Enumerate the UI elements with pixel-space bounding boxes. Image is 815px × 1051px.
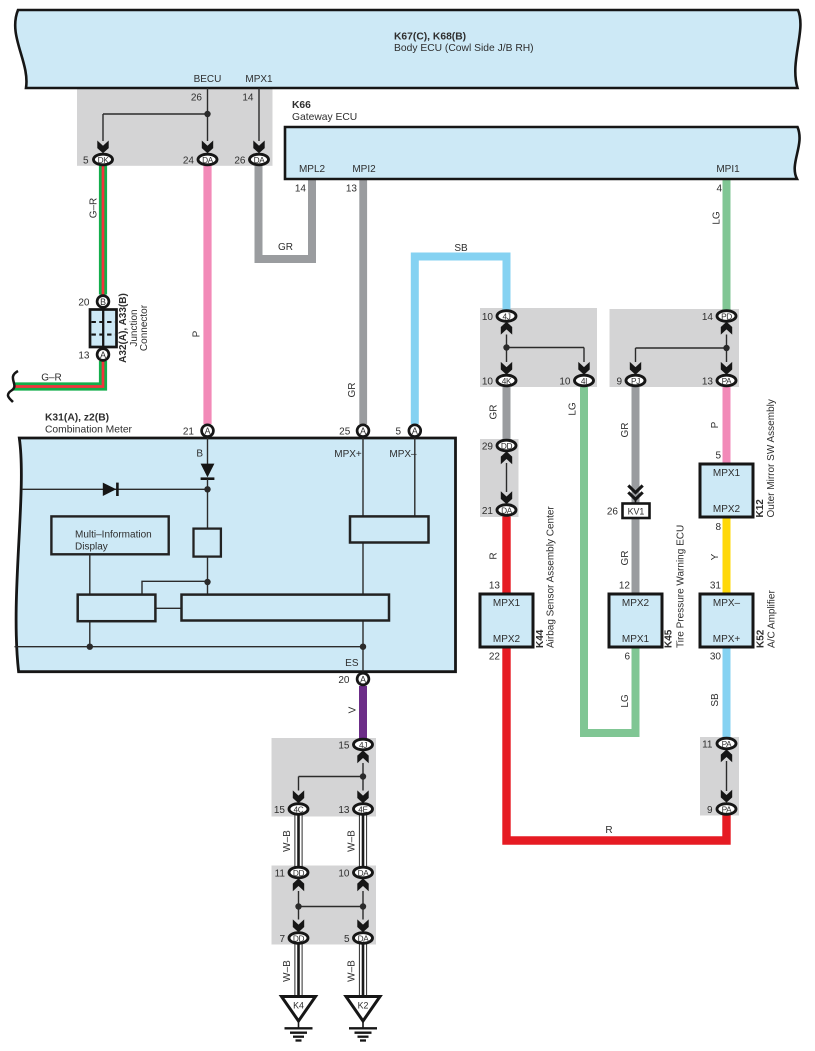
svg-text:13: 13 bbox=[338, 805, 350, 816]
svg-text:BECU: BECU bbox=[194, 74, 222, 85]
svg-text:13: 13 bbox=[489, 581, 501, 592]
svg-text:MPX1: MPX1 bbox=[245, 74, 273, 85]
svg-text:W–B: W–B bbox=[282, 830, 293, 852]
wire R from DA 21 to K44 pin 13 bbox=[489, 517, 511, 595]
svg-text:MPI2: MPI2 bbox=[352, 164, 376, 175]
svg-text:K4: K4 bbox=[293, 1001, 304, 1011]
svg-text:13: 13 bbox=[78, 351, 90, 362]
svg-text:30: 30 bbox=[710, 652, 722, 663]
connector PA 11 bbox=[702, 738, 736, 750]
svg-text:12: 12 bbox=[619, 581, 631, 592]
ground K4 bbox=[282, 997, 316, 1041]
svg-text:MPX2: MPX2 bbox=[493, 634, 521, 645]
svg-text:DD: DD bbox=[293, 868, 305, 878]
wire SB from meter pin 5 to 4J 10 bbox=[415, 243, 507, 424]
svg-text:DA: DA bbox=[501, 505, 513, 515]
block 4J/4K/4I internal wires bbox=[501, 322, 590, 375]
svg-text:K52: K52 bbox=[756, 629, 767, 648]
svg-text:K44: K44 bbox=[535, 629, 546, 648]
block PA/PA internal double arrow bbox=[721, 749, 732, 802]
svg-text:31: 31 bbox=[710, 581, 722, 592]
meter internal: multi-information display box bbox=[51, 516, 168, 554]
connector 4C 15 bbox=[274, 804, 308, 816]
svg-text:MPX2: MPX2 bbox=[622, 598, 650, 609]
svg-text:24: 24 bbox=[183, 156, 195, 167]
wire GR from DA 26 to K66 MPL2 bbox=[259, 165, 313, 259]
svg-text:PD: PD bbox=[721, 311, 732, 321]
wire P from PA 13 to K12 pin 5 bbox=[710, 387, 731, 465]
svg-text:DK: DK bbox=[98, 155, 110, 165]
svg-text:K31(A), z2(B): K31(A), z2(B) bbox=[45, 413, 109, 424]
svg-text:K67(C), K68(B): K67(C), K68(B) bbox=[394, 32, 466, 43]
svg-text:MPX+: MPX+ bbox=[334, 449, 362, 460]
meter internal: MPX box bbox=[350, 516, 429, 542]
svg-text:Outer Mirror SW Assembly: Outer Mirror SW Assembly bbox=[766, 399, 777, 517]
svg-text:DD: DD bbox=[293, 933, 305, 943]
wire GR from PJ 9 to KV1 bbox=[620, 387, 640, 504]
connector PA 9 bbox=[707, 804, 736, 816]
svg-text:26: 26 bbox=[607, 507, 619, 518]
combination meter box K31(A) z2(B) bbox=[16, 413, 455, 672]
connector DA 10 bbox=[338, 867, 372, 879]
svg-text:5: 5 bbox=[83, 156, 89, 167]
svg-text:22: 22 bbox=[489, 652, 501, 663]
connector shield block top-left bbox=[77, 88, 273, 166]
svg-text:26: 26 bbox=[234, 156, 246, 167]
svg-text:MPX1: MPX1 bbox=[493, 598, 521, 609]
svg-text:7: 7 bbox=[279, 934, 285, 945]
svg-text:PJ: PJ bbox=[631, 376, 640, 386]
connector DK 5 bbox=[83, 154, 113, 166]
svg-text:W–B: W–B bbox=[347, 830, 358, 852]
connector shield block 4J/4C/4E bottom bbox=[272, 738, 377, 817]
svg-text:GR: GR bbox=[620, 551, 631, 566]
ground K2 bbox=[346, 997, 380, 1041]
svg-text:MPL2: MPL2 bbox=[299, 164, 326, 175]
svg-text:4J: 4J bbox=[359, 740, 367, 750]
svg-text:R: R bbox=[605, 825, 612, 836]
ECU banner K67/K68 Body ECU bbox=[15, 10, 800, 88]
svg-text:P: P bbox=[710, 421, 721, 428]
svg-text:SB: SB bbox=[710, 693, 721, 707]
svg-text:DA: DA bbox=[358, 868, 370, 878]
svg-text:Body ECU (Cowl Side J/B RH): Body ECU (Cowl Side J/B RH) bbox=[394, 43, 534, 54]
wire V from meter pin 20 to 4J 15 bbox=[348, 686, 368, 739]
svg-text:4: 4 bbox=[716, 184, 722, 195]
wire BECU branch in top block bbox=[97, 88, 264, 153]
svg-text:25: 25 bbox=[339, 427, 351, 438]
block DD/DA mid internal double arrow bbox=[501, 451, 512, 504]
block 4J/4C/4E internal wires bbox=[293, 750, 369, 803]
svg-text:Combination Meter: Combination Meter bbox=[45, 425, 133, 436]
meter pin 5 A bbox=[395, 425, 420, 438]
svg-text:G–R: G–R bbox=[41, 373, 62, 384]
svg-text:K12: K12 bbox=[755, 499, 766, 518]
ECU box K44 Airbag Sensor Assembly Center bbox=[480, 506, 557, 663]
wire LG from 4I to K45 pin 6 bbox=[568, 387, 636, 733]
double chevron into KV1 bbox=[628, 486, 642, 504]
wire G-R from DK to junction connector B bbox=[89, 165, 108, 295]
svg-text:PA: PA bbox=[722, 804, 733, 814]
connector PD 14 bbox=[702, 311, 736, 323]
svg-text:LG: LG bbox=[712, 211, 723, 225]
svg-text:Tire Pressure Warning ECU: Tire Pressure Warning ECU bbox=[676, 525, 687, 648]
svg-text:10: 10 bbox=[482, 377, 494, 388]
svg-text:20: 20 bbox=[338, 675, 350, 686]
svg-text:K66: K66 bbox=[292, 100, 311, 111]
svg-text:W–B: W–B bbox=[347, 960, 358, 982]
svg-text:W–B: W–B bbox=[282, 960, 293, 982]
ECU box K52 A/C Amplifier bbox=[700, 581, 778, 663]
svg-text:SB: SB bbox=[454, 243, 468, 254]
svg-text:Connector: Connector bbox=[139, 304, 150, 351]
svg-text:A/C Amplifier: A/C Amplifier bbox=[767, 590, 778, 648]
svg-text:A32(A), A33(B): A32(A), A33(B) bbox=[118, 293, 129, 363]
connector DD 29 bbox=[482, 440, 516, 452]
meter internal: wires below square bbox=[15, 438, 415, 672]
connector shield block PA/PA bbox=[700, 737, 739, 816]
svg-text:15: 15 bbox=[338, 741, 350, 752]
svg-text:GR: GR bbox=[489, 405, 500, 420]
svg-text:4I: 4I bbox=[581, 376, 587, 386]
connector shield block PD/PJ/PA bbox=[610, 309, 740, 387]
meter pin 25 A bbox=[339, 425, 369, 438]
connector DD 11 bbox=[275, 867, 308, 879]
connector 4E 13 bbox=[338, 804, 372, 816]
connector shield block 4J/4K/4I bbox=[480, 308, 597, 387]
wire W-B from 4C to DD 11 bbox=[282, 815, 302, 867]
wire SB from K52 pin 30 to PA 11 bbox=[710, 647, 731, 738]
svg-text:P: P bbox=[192, 330, 203, 337]
svg-text:11: 11 bbox=[702, 740, 713, 751]
svg-text:MPX–: MPX– bbox=[389, 449, 417, 460]
wire W-B from DD 7 to ground K4 bbox=[282, 944, 302, 997]
connector DD 7 bbox=[279, 933, 308, 945]
svg-text:Multi–Information: Multi–Information bbox=[75, 530, 152, 541]
svg-text:15: 15 bbox=[274, 805, 286, 816]
svg-text:Airbag Sensor Assembly Center: Airbag Sensor Assembly Center bbox=[546, 506, 557, 648]
connector 4I 10 bbox=[559, 375, 593, 387]
connector DA 24 bbox=[183, 154, 217, 166]
connector shield block DD/DA mid bbox=[480, 439, 519, 517]
svg-text:Display: Display bbox=[75, 541, 108, 552]
svg-text:21: 21 bbox=[183, 427, 195, 438]
svg-text:21: 21 bbox=[482, 506, 494, 517]
svg-text:26: 26 bbox=[191, 93, 203, 104]
svg-text:MPX+: MPX+ bbox=[713, 634, 741, 645]
ECU box K12 Outer Mirror SW Assembly bbox=[700, 399, 777, 533]
svg-text:GR: GR bbox=[347, 383, 358, 398]
svg-text:10: 10 bbox=[559, 377, 571, 388]
svg-text:GR: GR bbox=[278, 242, 293, 253]
svg-text:K45: K45 bbox=[664, 629, 675, 648]
svg-text:Y: Y bbox=[710, 553, 721, 560]
connector DA 21 bbox=[482, 505, 516, 517]
svg-text:4J: 4J bbox=[502, 311, 510, 321]
connector 4K 10 bbox=[482, 375, 516, 387]
svg-text:B: B bbox=[100, 297, 106, 307]
junction connector A32(A) A33(B) bbox=[78, 293, 150, 363]
wire W-B from 4E to DA 10 bbox=[347, 815, 367, 867]
svg-text:V: V bbox=[348, 706, 359, 713]
meter pin 20 A (ES) bbox=[338, 673, 369, 686]
svg-text:K2: K2 bbox=[358, 1001, 369, 1011]
block PD/PJ/PA internal wires bbox=[630, 322, 732, 375]
svg-text:A: A bbox=[360, 426, 366, 436]
svg-text:MPI1: MPI1 bbox=[716, 164, 740, 175]
wire W-B from DA 5 to ground K2 bbox=[347, 944, 367, 997]
svg-text:9: 9 bbox=[707, 805, 713, 816]
svg-text:10: 10 bbox=[338, 869, 350, 880]
connector 4J 15 bbox=[338, 739, 372, 751]
wire GR from KV1 to K45 pin 12 bbox=[620, 518, 640, 595]
svg-text:DA: DA bbox=[254, 155, 266, 165]
svg-text:4C: 4C bbox=[294, 804, 304, 814]
svg-text:5: 5 bbox=[715, 451, 721, 462]
meter internal: horizontal wire with diode bbox=[22, 483, 211, 496]
meter internal: small square bbox=[194, 529, 221, 557]
wire GR from 4K to DD 29 bbox=[489, 387, 511, 440]
svg-text:14: 14 bbox=[702, 312, 714, 323]
wire R from K44 pin 22 to PA 9 bbox=[507, 647, 727, 841]
svg-text:PA: PA bbox=[722, 376, 733, 386]
svg-text:DD: DD bbox=[501, 441, 513, 451]
svg-text:PA: PA bbox=[722, 739, 733, 749]
svg-text:G–R: G–R bbox=[89, 198, 100, 219]
svg-text:KV1: KV1 bbox=[628, 507, 645, 517]
svg-text:A: A bbox=[100, 350, 106, 360]
svg-text:14: 14 bbox=[242, 93, 254, 104]
svg-text:DA: DA bbox=[202, 155, 214, 165]
meter pin 21 A bbox=[183, 425, 214, 438]
svg-text:Gateway ECU: Gateway ECU bbox=[292, 112, 357, 123]
svg-text:4K: 4K bbox=[502, 376, 512, 386]
connector DA 26 bbox=[234, 154, 268, 166]
wire GR from K66 MPI2 to meter pin 25 bbox=[347, 179, 367, 424]
svg-text:13: 13 bbox=[702, 377, 714, 388]
svg-text:MPX2: MPX2 bbox=[713, 504, 741, 515]
svg-text:A: A bbox=[205, 426, 211, 436]
svg-text:B: B bbox=[196, 449, 203, 460]
svg-text:6: 6 bbox=[624, 652, 630, 663]
svg-text:A: A bbox=[360, 674, 366, 684]
svg-text:A: A bbox=[412, 426, 418, 436]
svg-text:MPX1: MPX1 bbox=[713, 468, 741, 479]
svg-text:20: 20 bbox=[78, 298, 90, 309]
svg-text:R: R bbox=[489, 552, 500, 559]
svg-text:5: 5 bbox=[395, 427, 401, 438]
svg-text:MPX1: MPX1 bbox=[622, 634, 650, 645]
svg-text:10: 10 bbox=[482, 312, 494, 323]
svg-text:ES: ES bbox=[345, 658, 359, 669]
wire Y from K12 pin 8 to K52 pin 31 bbox=[710, 517, 731, 595]
svg-text:14: 14 bbox=[295, 184, 307, 195]
svg-text:4E: 4E bbox=[358, 804, 368, 814]
ECU box K66 Gateway ECU bbox=[285, 100, 800, 195]
connector PJ 9 bbox=[616, 375, 645, 387]
connector 4J 10 bbox=[482, 311, 516, 323]
connector PA 13 bbox=[702, 375, 736, 387]
wire P from DA 24 to meter pin 21 bbox=[192, 165, 212, 424]
svg-text:5: 5 bbox=[344, 934, 350, 945]
ECU box K45 Tire Pressure Warning ECU bbox=[609, 525, 687, 663]
connector KV1 26 bbox=[607, 504, 650, 519]
svg-text:GR: GR bbox=[620, 423, 631, 438]
svg-text:LG: LG bbox=[620, 694, 631, 708]
svg-text:8: 8 bbox=[715, 522, 721, 533]
svg-text:29: 29 bbox=[482, 442, 494, 453]
svg-text:DA: DA bbox=[358, 933, 370, 943]
wire LG from K66 MPI1 to PD 14 bbox=[712, 179, 731, 310]
meter internal: small left box bbox=[78, 595, 156, 622]
connector shield block DD/DA bottom bbox=[272, 866, 377, 945]
svg-text:LG: LG bbox=[568, 402, 579, 416]
wire G-R from junction connector A to break bbox=[8, 361, 107, 402]
meter internal: diode on B line bbox=[201, 438, 215, 529]
svg-text:13: 13 bbox=[346, 184, 358, 195]
block DD/DA bottom internal wires bbox=[293, 878, 369, 932]
meter internal: long box bbox=[182, 595, 390, 621]
svg-text:11: 11 bbox=[275, 869, 286, 880]
connector DA 5 bbox=[344, 933, 373, 945]
svg-text:MPX–: MPX– bbox=[713, 598, 741, 609]
svg-text:9: 9 bbox=[616, 377, 622, 388]
